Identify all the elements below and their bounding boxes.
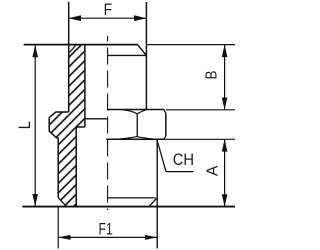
bore edge (section, left) [84,45,86,127]
svg-text:A: A [204,165,221,176]
hatched section: hex collar in section (left) [49,112,76,138]
svg-text:CH: CH [173,151,194,169]
hex top extension right (B ref) [166,109,235,111]
svg-text:B: B [204,71,221,80]
L dimension [34,45,36,206]
body right edge + F extension [145,2,147,110]
hex collar outline (section, left) [49,112,68,138]
hatched section: lower male wall (left) [58,138,76,207]
body left edge + F extension [68,2,70,112]
bore step [76,126,85,128]
hex chamfer shoulder line (left of center) [84,118,107,120]
male bore edge (section, left) [75,127,77,207]
F1 extension left [57,207,59,249]
hex bottom line (right half) [106,138,164,140]
F1 dimension [58,236,157,238]
hex corner edge [136,114,138,137]
centerline [107,36,109,210]
chamfer base line (right half) [108,54,147,56]
hex top chamfer arcs [123,110,147,114]
A dimension [224,139,226,206]
F dimension [69,17,147,19]
chamfer top-right of body [137,44,146,55]
B dimension [224,45,226,110]
male bottom chamfer (right) [149,198,157,206]
male bottom chamfer (left) [58,198,66,207]
bottom face line [22,206,235,208]
outer chamfer line on sectioned wall [69,45,76,53]
hex bottom-right chamfer [164,136,166,139]
male outer edge (section, left) [57,138,59,198]
hatched section: upper-left wall of female body [69,45,85,127]
hex bottom chamfer arcs [120,137,154,139]
male chamfer base line (right half) [108,197,156,199]
hex right edge [165,113,167,136]
svg-text:L: L [17,121,35,130]
male right edge + F1 extension [156,139,158,248]
top face extension line right [146,44,235,46]
hex bottom extension right (A ref) [164,138,235,140]
hex top-right chamfer [164,110,166,114]
top face line [24,44,138,46]
svg-text:F1: F1 [98,221,112,239]
CH label with leader [157,140,166,172]
hex top line [107,109,164,111]
svg-text:F: F [104,1,113,19]
